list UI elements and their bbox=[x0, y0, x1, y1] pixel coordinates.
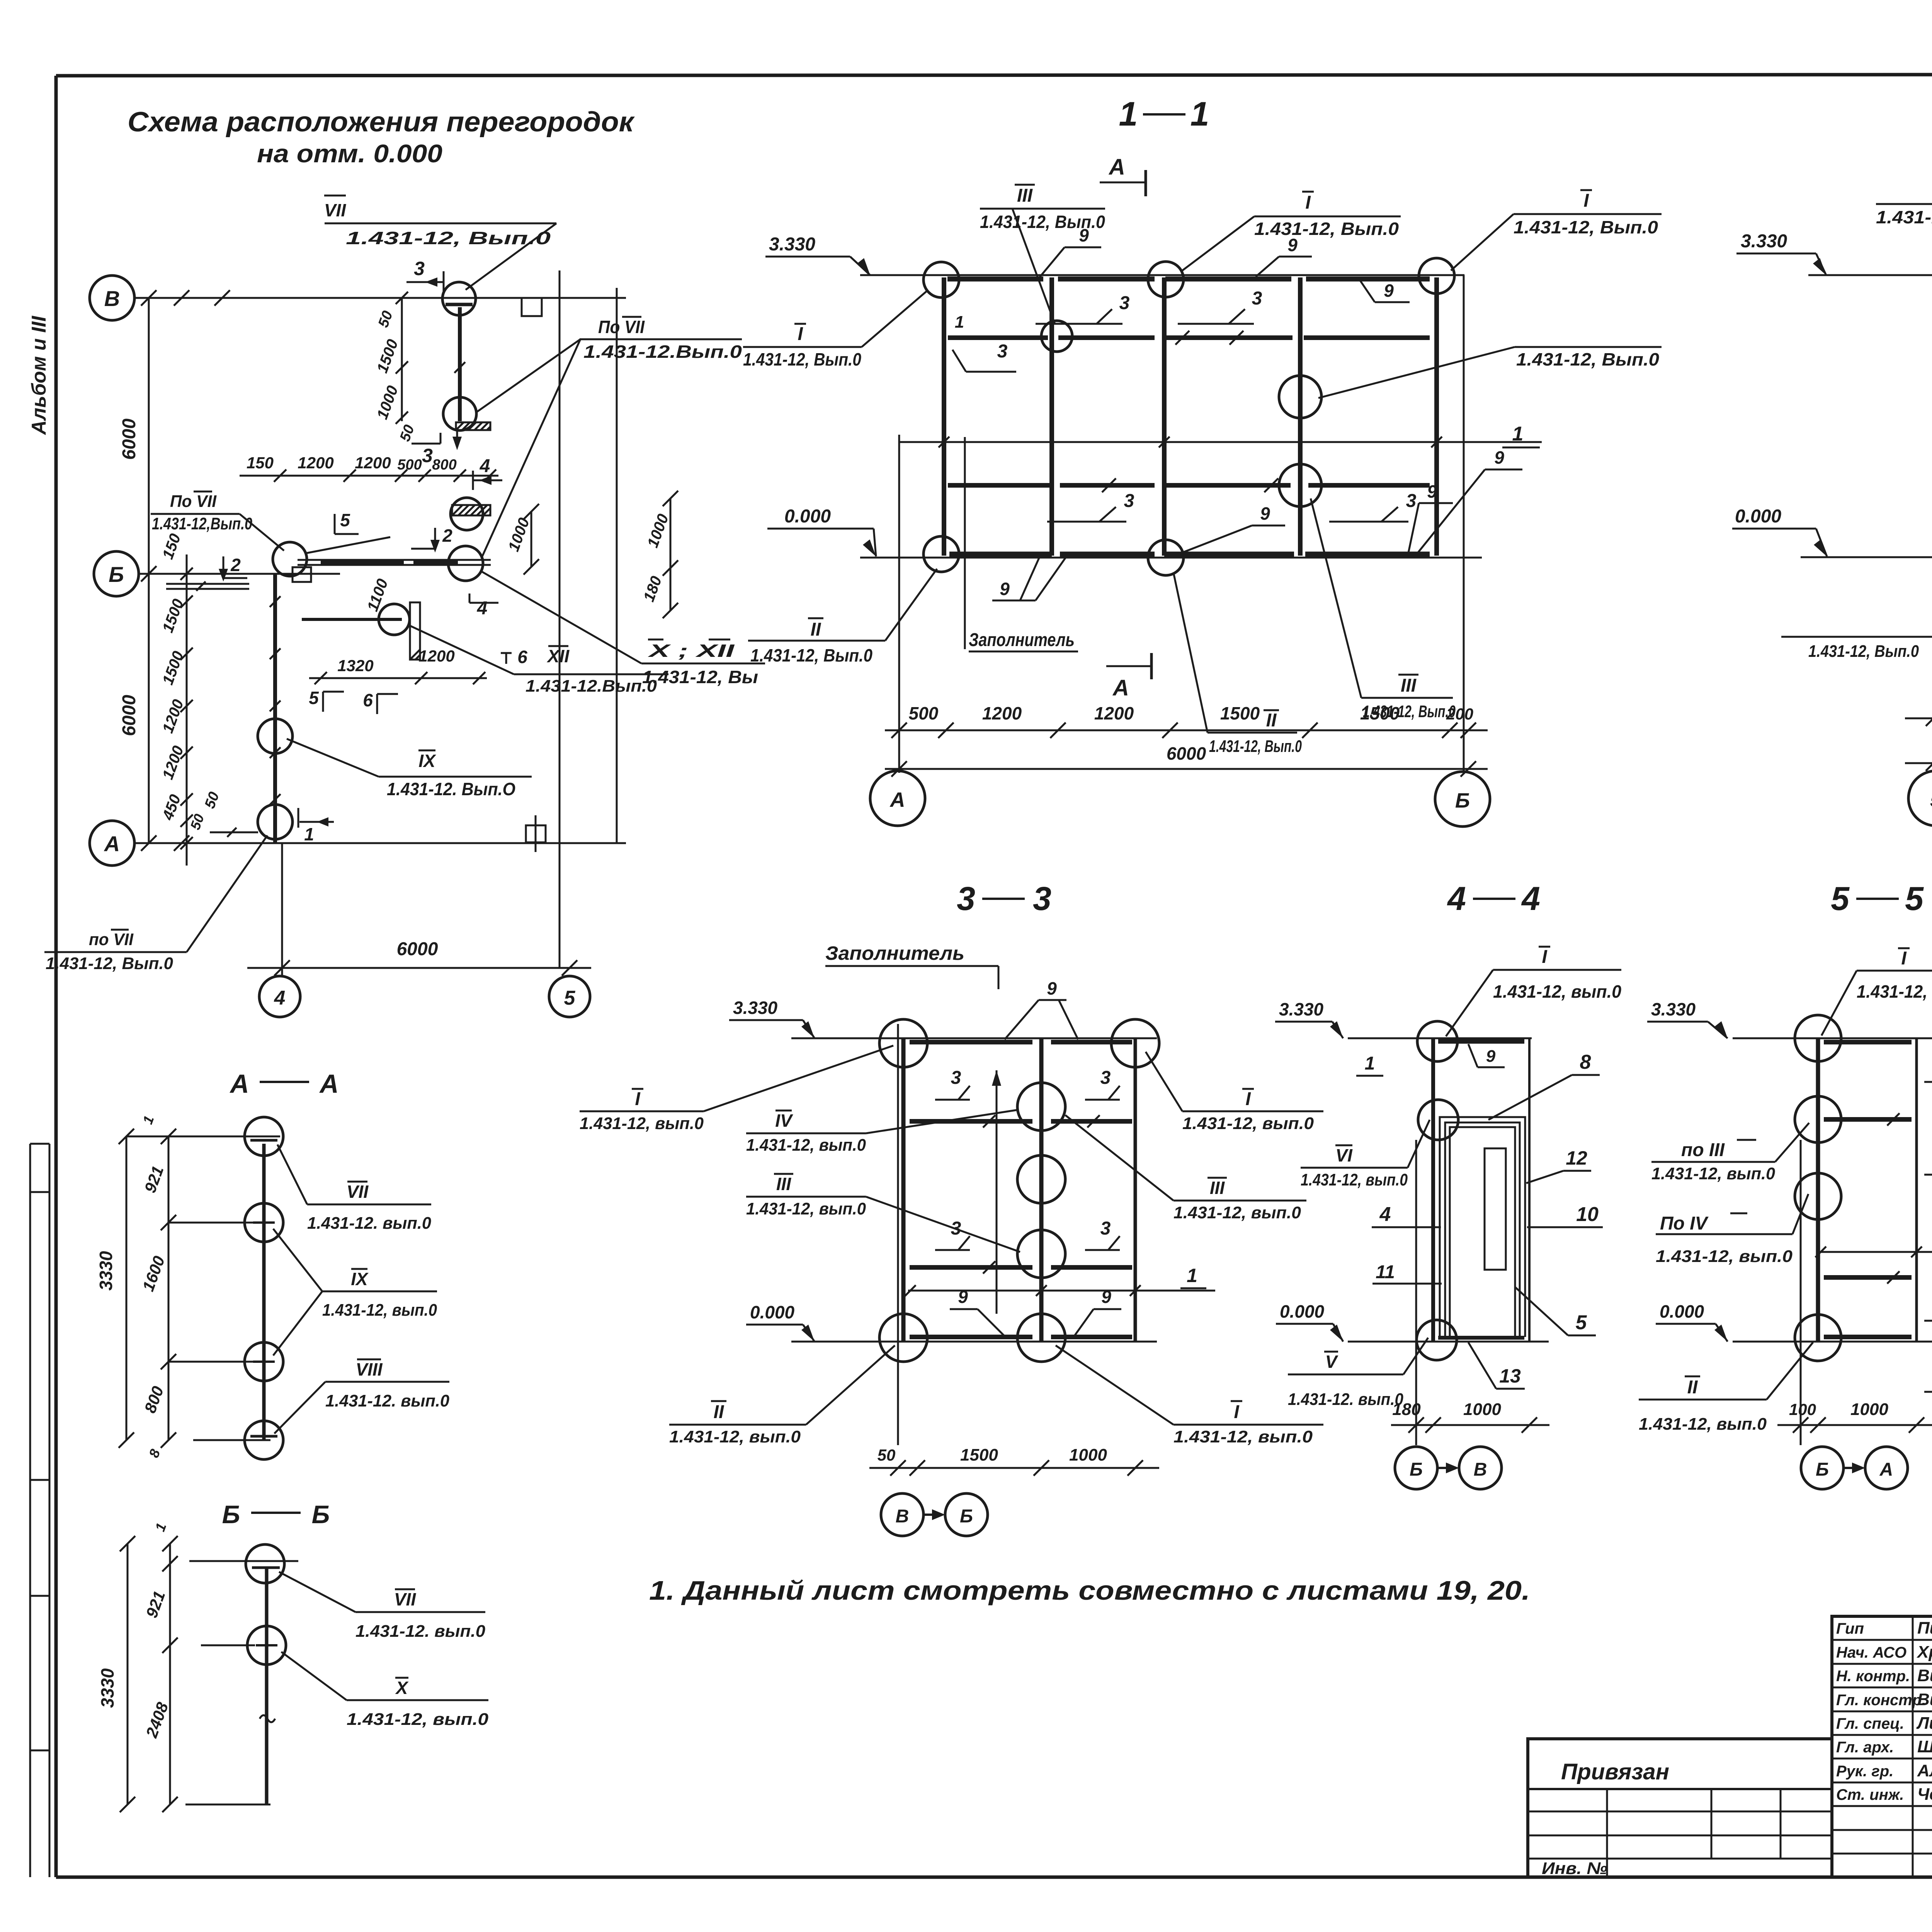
svg-text:4: 4 bbox=[274, 987, 286, 1009]
thin line 1 (5-5) bbox=[1815, 1247, 1932, 1257]
small dim 50 near А bbox=[202, 790, 258, 837]
callout VII (plan top) bbox=[324, 196, 556, 290]
slab bars (5-5) bbox=[1824, 1042, 1912, 1337]
callout X (Б-Б) bbox=[281, 1652, 489, 1729]
svg-text:Черкасова: Черкасова bbox=[1917, 1785, 1932, 1804]
svg-text:VII: VII bbox=[347, 1182, 369, 1202]
svg-text:6000: 6000 bbox=[119, 695, 139, 736]
svg-text:1.431-12, вып.0: 1.431-12, вып.0 bbox=[1173, 1203, 1301, 1222]
label 4 (4-4) bbox=[1372, 1203, 1441, 1227]
dimension chain (3-3) bbox=[869, 1446, 1159, 1476]
svg-text:9: 9 bbox=[1287, 235, 1298, 255]
callout circle VII top bbox=[442, 282, 476, 315]
callout I left (1-1) bbox=[743, 291, 927, 369]
svg-text:9: 9 bbox=[1079, 225, 1089, 245]
partitions (3-3) bbox=[903, 1038, 1135, 1342]
circles (Б-Б) bbox=[246, 1544, 286, 1665]
partitions (4-4) bbox=[1433, 1038, 1529, 1342]
view direction circles В-Б (3-3) bbox=[881, 1493, 988, 1536]
flag 9 bottom-right b (1-1) bbox=[1414, 447, 1522, 557]
partition dim chain 50/1500/1000/50 bbox=[374, 292, 418, 444]
hatched anchor in circle near axis 4 flag bbox=[451, 498, 490, 530]
svg-text:3: 3 bbox=[1033, 880, 1051, 917]
section 1-1 title bbox=[1119, 95, 1209, 133]
svg-text:4: 4 bbox=[1379, 1203, 1391, 1226]
svg-text:180: 180 bbox=[1392, 1400, 1421, 1419]
partition with hatch bar below Б bbox=[302, 602, 420, 660]
callout IX (plan) bbox=[287, 739, 532, 799]
flag 3 (1-1) e bbox=[1264, 478, 1417, 522]
svg-text:по VII: по VII bbox=[89, 930, 134, 949]
ground line (2-2) bbox=[1801, 556, 1932, 558]
svg-text:1.431-12. вып.0: 1.431-12. вып.0 bbox=[355, 1622, 486, 1641]
svg-text:3: 3 bbox=[1119, 293, 1130, 313]
callout по III (5-5) bbox=[1651, 1123, 1809, 1183]
svg-text:Б: Б bbox=[1455, 789, 1470, 812]
svg-text:1200: 1200 bbox=[418, 647, 454, 665]
axis dash line (5-5) bbox=[1800, 1140, 1802, 1445]
plan view axis line А bbox=[134, 835, 626, 851]
svg-text:0.000: 0.000 bbox=[750, 1302, 795, 1322]
svg-text:по III: по III bbox=[1681, 1140, 1725, 1160]
svg-text:I: I bbox=[1542, 947, 1548, 967]
svg-text:IX: IX bbox=[351, 1269, 369, 1289]
svg-text:1000: 1000 bbox=[1069, 1446, 1107, 1464]
section 4-4 title bbox=[1447, 880, 1540, 917]
svg-text:XII: XII bbox=[546, 646, 570, 666]
svg-text:800: 800 bbox=[432, 457, 456, 473]
svg-text:По VII: По VII bbox=[598, 317, 645, 337]
svg-text:III: III bbox=[1210, 1178, 1225, 1198]
label Заполнитель (3-3) bbox=[825, 942, 998, 989]
callout III bottom-right (1-1) bbox=[1311, 498, 1456, 721]
partition row on axis Б bbox=[293, 537, 491, 582]
plan lower dim chain 1320/1200 bbox=[309, 647, 487, 684]
callout V (4-4) bbox=[1288, 1338, 1428, 1409]
callout circle left on Б partition bbox=[273, 542, 307, 576]
section А-А title bbox=[229, 1069, 338, 1099]
cut pointer line (3-3) bbox=[992, 1070, 1001, 1314]
svg-text:3: 3 bbox=[957, 880, 975, 917]
svg-text:VI: VI bbox=[1335, 1145, 1353, 1165]
svg-text:1.431-12, Вып.0: 1.431-12, Вып.0 bbox=[346, 228, 551, 248]
flags 3 lower (3-3) bbox=[935, 1218, 995, 1274]
callout I right (3-3) bbox=[1146, 1052, 1323, 1133]
svg-text:0.000: 0.000 bbox=[784, 506, 831, 527]
flag 9 top (3-3) bbox=[1005, 978, 1078, 1039]
svg-text:II: II bbox=[714, 1402, 724, 1422]
callout circles (5-5) bbox=[1795, 1015, 1841, 1061]
top bar (4-4) bbox=[1438, 1039, 1524, 1044]
axis circle 5 bbox=[549, 976, 590, 1017]
svg-text:1.431-12, вып.0: 1.431-12, вып.0 bbox=[322, 1301, 437, 1320]
callout I top-left (2-2) bbox=[1876, 180, 1932, 270]
axis circle А bbox=[90, 821, 134, 866]
svg-text:I: I bbox=[1245, 1089, 1251, 1109]
svg-text:3: 3 bbox=[422, 445, 433, 466]
callout По VII (plan left) bbox=[151, 492, 284, 551]
top level line (1-1) bbox=[860, 274, 1464, 276]
flag 9 bottom-right a (1-1) bbox=[1408, 481, 1453, 553]
section 3-3 title bbox=[957, 880, 1051, 917]
svg-text:1.431-12, Вып.0: 1.431-12, Вып.0 bbox=[1209, 737, 1302, 756]
dimension chain (5-5) bbox=[1777, 1400, 1932, 1433]
svg-text:I: I bbox=[1234, 1402, 1240, 1422]
svg-text:3: 3 bbox=[997, 341, 1008, 362]
svg-text:II: II bbox=[1266, 710, 1277, 731]
flag 9 top-left (1-1) bbox=[1039, 225, 1101, 277]
callout I top (1-1) bbox=[1182, 192, 1401, 270]
thin line 1 (1-1) bbox=[900, 437, 1542, 447]
callout I top (5-5) bbox=[1821, 948, 1932, 1036]
section mark 1 near А bbox=[298, 808, 334, 844]
svg-text:В: В bbox=[104, 286, 120, 311]
callout IV (3-3) bbox=[746, 1110, 1019, 1155]
flag 9 bottom-left pair (1-1) bbox=[992, 556, 1066, 600]
svg-text:Б: Б bbox=[1816, 1459, 1829, 1480]
section mark А bottom bbox=[1106, 653, 1151, 701]
dimension chain 6000 (1-1) bbox=[885, 743, 1488, 777]
view direction circles Б-В (4-4) bbox=[1395, 1447, 1502, 1489]
svg-text:Инв. №: Инв. № bbox=[1542, 1859, 1607, 1878]
svg-text:А: А bbox=[1112, 675, 1129, 701]
callout II bottom (3-3) bbox=[669, 1345, 895, 1446]
svg-text:1200: 1200 bbox=[355, 454, 391, 472]
svg-text:9: 9 bbox=[1000, 579, 1010, 599]
top level line (3-3) bbox=[791, 1037, 1157, 1039]
svg-text:Гл. спец.: Гл. спец. bbox=[1836, 1715, 1904, 1732]
break squiggle (Б-Б) bbox=[260, 1715, 275, 1722]
callout circles (3-3) bbox=[879, 1019, 927, 1067]
svg-text:500: 500 bbox=[909, 703, 939, 723]
plan left dimension line 6000/6000 bbox=[119, 290, 156, 851]
svg-text:I: I bbox=[798, 324, 803, 344]
svg-text:1500: 1500 bbox=[960, 1446, 998, 1464]
top level line (5-5) bbox=[1733, 1037, 1932, 1039]
ground line (4-4) bbox=[1348, 1341, 1549, 1343]
svg-text:VII: VII bbox=[394, 1589, 416, 1609]
callout I left (3-3) bbox=[580, 1046, 893, 1133]
callout X ; XII (plan right lower) bbox=[482, 572, 765, 687]
svg-text:VIII: VIII bbox=[355, 1359, 383, 1379]
middle bar row 1 (1-1) bbox=[948, 335, 1430, 340]
callout circles (1-1) bbox=[923, 262, 959, 298]
svg-text:Шаломеев: Шаломеев bbox=[1917, 1737, 1932, 1756]
svg-text:6000: 6000 bbox=[1167, 743, 1206, 764]
svg-text:А: А bbox=[1879, 1459, 1893, 1480]
svg-text:1: 1 bbox=[304, 824, 314, 844]
svg-text:3330: 3330 bbox=[97, 1668, 117, 1708]
slab bars (3-3) bbox=[910, 1042, 1132, 1337]
svg-text:3: 3 bbox=[1406, 491, 1417, 511]
plan outer right wall line bbox=[616, 288, 618, 843]
ground line (5-5) bbox=[1733, 1341, 1932, 1343]
right vertical dim 1000/180 labels bbox=[640, 491, 678, 618]
svg-text:1.431-12, вып.0: 1.431-12, вып.0 bbox=[1656, 1247, 1793, 1266]
svg-text:1: 1 bbox=[955, 313, 964, 332]
svg-text:1.431-12, Вып.0: 1.431-12, Вып.0 bbox=[750, 645, 872, 665]
plan partition wall top (VII) bbox=[446, 304, 473, 421]
svg-text:1.431-12.Вып.0: 1.431-12.Вып.0 bbox=[583, 342, 742, 362]
svg-text:Привязан: Привязан bbox=[1561, 1759, 1669, 1784]
svg-text:1.431-12, Вып.0: 1.431-12, Вып.0 bbox=[1516, 349, 1659, 369]
plan right wall line bbox=[559, 270, 561, 968]
label 13 (4-4) bbox=[1468, 1342, 1525, 1389]
svg-text:I: I bbox=[1583, 190, 1589, 211]
svg-text:II: II bbox=[1687, 1377, 1698, 1398]
svg-text:I: I bbox=[1305, 192, 1311, 213]
svg-text:Рук. гр.: Рук. гр. bbox=[1836, 1763, 1893, 1780]
top level line (2-2) bbox=[1808, 274, 1932, 276]
section mark 6 bottom bbox=[363, 690, 398, 714]
svg-text:Гл. констр.: Гл. констр. bbox=[1836, 1692, 1926, 1709]
axis 4 drop line bbox=[281, 843, 283, 976]
svg-text:9: 9 bbox=[958, 1287, 968, 1307]
svg-text:Б: Б bbox=[109, 562, 124, 587]
svg-text:3.330: 3.330 bbox=[733, 998, 778, 1018]
svg-text:500: 500 bbox=[397, 457, 422, 473]
partition (Б-Б) bbox=[265, 1569, 269, 1804]
svg-text:По IV: По IV bbox=[1660, 1213, 1709, 1234]
callout III right (3-3) bbox=[1065, 1115, 1306, 1222]
svg-text:1.431-12,Вып.0: 1.431-12,Вып.0 bbox=[152, 514, 252, 533]
svg-text:1.431-12. вып.0: 1.431-12. вып.0 bbox=[1288, 1390, 1403, 1409]
callout circles (4-4) bbox=[1417, 1021, 1458, 1061]
label 5 (4-4) bbox=[1515, 1287, 1596, 1335]
svg-text:12: 12 bbox=[1566, 1147, 1587, 1169]
svg-text:Гип: Гип bbox=[1836, 1620, 1864, 1637]
svg-text:1: 1 bbox=[1512, 423, 1524, 445]
svg-text:1.431-12. вып.0: 1.431-12. вып.0 bbox=[307, 1214, 432, 1233]
svg-text:Винклер: Винклер bbox=[1917, 1666, 1932, 1685]
svg-text:1200: 1200 bbox=[1094, 703, 1134, 723]
svg-text:200: 200 bbox=[1446, 705, 1473, 723]
door slot (4-4) bbox=[1485, 1148, 1506, 1270]
svg-text:X: X bbox=[395, 1678, 409, 1698]
svg-text:1.431-12. Вып.О: 1.431-12. Вып.О bbox=[387, 779, 515, 799]
svg-text:А: А bbox=[1108, 155, 1125, 180]
section mark 3 bottom bbox=[412, 433, 440, 466]
svg-text:9: 9 bbox=[1384, 281, 1394, 301]
privyazan box bbox=[1528, 1739, 1832, 1878]
svg-text:1.431-12, вып.0: 1.431-12, вып.0 bbox=[746, 1136, 866, 1155]
svg-text:50: 50 bbox=[878, 1446, 896, 1464]
svg-text:3: 3 bbox=[1100, 1068, 1111, 1088]
svg-text:1.431-12. вып.0: 1.431-12. вып.0 bbox=[325, 1391, 450, 1410]
svg-text:5: 5 bbox=[564, 987, 576, 1009]
svg-text:5: 5 bbox=[1831, 880, 1850, 917]
bottom line (Б-Б) bbox=[185, 1804, 270, 1806]
label 1 (4-4) bbox=[1356, 1053, 1383, 1076]
svg-text:5: 5 bbox=[309, 688, 319, 708]
callout I top-right (1-1) bbox=[1451, 190, 1662, 270]
svg-text:1. Данный лист смотреть: 1. Данный лист смотреть совместно с лист… bbox=[649, 1575, 1530, 1605]
flag 3 (1-1) d bbox=[1047, 478, 1134, 522]
square fixture on axis А bbox=[526, 815, 546, 852]
svg-text:9: 9 bbox=[1427, 481, 1437, 502]
dimension chain (4-4) bbox=[1391, 1400, 1549, 1433]
svg-text:IX: IX bbox=[418, 751, 436, 771]
callout по VII (plan bottom-left) bbox=[44, 835, 267, 973]
callout II bottom-mid (1-1) bbox=[1174, 575, 1302, 756]
level lines (А-А) bbox=[168, 1223, 270, 1440]
label Заполнитель (1-1) bbox=[969, 630, 1078, 651]
axis circle 5 (2-2) bbox=[1908, 771, 1932, 826]
svg-text:1000: 1000 bbox=[1463, 1400, 1501, 1419]
plan partition wall on axis 4 bbox=[270, 574, 281, 843]
svg-text:1.431-12.Вып.0: 1.431-12.Вып.0 bbox=[526, 677, 657, 696]
label 12 (4-4) bbox=[1526, 1147, 1591, 1183]
square fixture on axis В bbox=[522, 298, 542, 316]
label 10 (4-4) bbox=[1527, 1203, 1603, 1227]
svg-text:Пивторак: Пивторак bbox=[1917, 1619, 1932, 1638]
axis circle В bbox=[90, 276, 134, 320]
section mark 3 top bbox=[406, 258, 444, 293]
svg-text:В: В bbox=[1474, 1459, 1487, 1480]
svg-text:Нач. АСО: Нач. АСО bbox=[1836, 1644, 1906, 1661]
svg-text:4: 4 bbox=[1447, 880, 1466, 917]
label 8 (4-4) bbox=[1488, 1051, 1600, 1120]
partition double line below Б bbox=[166, 582, 249, 591]
axis circle 4 bbox=[259, 976, 300, 1017]
svg-text:В: В bbox=[896, 1506, 909, 1527]
svg-text:1.431-12, Вып.0: 1.431-12, Вып.0 bbox=[1808, 642, 1919, 661]
svg-text:5: 5 bbox=[1905, 880, 1924, 917]
svg-text:1500: 1500 bbox=[1220, 703, 1260, 723]
plan view axis line В bbox=[134, 290, 626, 306]
svg-text:2: 2 bbox=[230, 555, 241, 575]
left margin inventory boxes bbox=[30, 1144, 49, 1877]
door frame (4-4) bbox=[1440, 1117, 1525, 1337]
label 1 (3-3) bbox=[1180, 1265, 1206, 1288]
dimension chain 1 (1-1) bbox=[885, 703, 1488, 738]
svg-text:1.431-12, вып.0: 1.431-12, вып.0 bbox=[1173, 1427, 1313, 1446]
svg-text:V: V bbox=[1325, 1352, 1338, 1372]
bottom bars (1-1) bbox=[949, 552, 1430, 557]
svg-text:1.431-12, Вып.0: 1.431-12, Вып.0 bbox=[1876, 207, 1932, 227]
svg-text:3: 3 bbox=[951, 1068, 961, 1088]
flag 9 upper-right (1-1) bbox=[1360, 281, 1410, 302]
callout circle VII bottom bbox=[443, 397, 476, 430]
flags 3 upper (3-3) bbox=[935, 1068, 995, 1128]
svg-text:Альбом и III: Альбом и III bbox=[28, 315, 50, 435]
callout II bottom (5-5) bbox=[1639, 1342, 1813, 1434]
dim chains (А-А) bbox=[96, 1114, 176, 1460]
svg-text:1.431-12, Вып.0: 1.431-12, Вып.0 bbox=[1254, 219, 1399, 239]
svg-text:1.431-12, Вып.0: 1.431-12, Вып.0 bbox=[743, 349, 861, 369]
svg-text:Ст. инж.: Ст. инж. bbox=[1836, 1786, 1904, 1803]
svg-text:1: 1 bbox=[1187, 1265, 1197, 1286]
label 1 right (1-1) bbox=[1502, 423, 1540, 447]
svg-text:3.330: 3.330 bbox=[1279, 999, 1324, 1019]
axis circle Б (1-1) bbox=[1435, 772, 1490, 827]
section 5-5 title bbox=[1831, 880, 1924, 917]
callout По VII (plan right) bbox=[477, 317, 742, 556]
svg-text:1.431-12, вып.0: 1.431-12, вып.0 bbox=[1651, 1164, 1776, 1183]
dimension chain (2-2) bbox=[1905, 695, 1932, 726]
svg-text:1.431-12, вып.0: 1.431-12, вып.0 bbox=[746, 1199, 866, 1218]
svg-text:Б: Б bbox=[312, 1500, 330, 1529]
section mark 4 top bbox=[473, 456, 502, 490]
flag 9 bottom-mid (1-1) bbox=[1182, 503, 1285, 553]
callout VIII (А-А) bbox=[274, 1359, 450, 1434]
callout I top (4-4) bbox=[1446, 947, 1621, 1036]
svg-text:Схема расположения перегород: Схема расположения перегородок bbox=[128, 107, 635, 138]
section Б-Б title bbox=[222, 1500, 330, 1529]
svg-text:1.431-12, вып.0: 1.431-12, вып.0 bbox=[1639, 1415, 1767, 1434]
svg-text:Заполнитель: Заполнитель bbox=[825, 942, 964, 964]
svg-text:8: 8 bbox=[1580, 1051, 1591, 1073]
svg-text:9: 9 bbox=[1101, 1287, 1111, 1307]
svg-text:6000: 6000 bbox=[119, 418, 139, 460]
svg-text:1320: 1320 bbox=[337, 656, 373, 675]
ground level line (1-1) bbox=[860, 557, 1482, 559]
axis dash line (4-4) bbox=[1415, 1140, 1417, 1445]
svg-text:4: 4 bbox=[477, 598, 488, 619]
svg-text:II: II bbox=[811, 619, 821, 640]
svg-text:IV: IV bbox=[775, 1111, 793, 1131]
svg-text:1.431-12, вып.0: 1.431-12, вып.0 bbox=[1857, 981, 1932, 1002]
axis circle А (1-1) bbox=[870, 771, 925, 826]
ground line (3-3) bbox=[791, 1341, 1157, 1343]
svg-text:Лисичкин: Лисичкин bbox=[1916, 1714, 1932, 1733]
section mark 4 bottom bbox=[469, 594, 498, 619]
wall columns (1-1) bbox=[944, 277, 1437, 556]
svg-text:3330: 3330 bbox=[96, 1251, 116, 1291]
top level line (4-4) bbox=[1348, 1037, 1532, 1039]
svg-text:X ; XII: X ; XII bbox=[647, 641, 735, 661]
top line (Б-Б) bbox=[189, 1560, 298, 1562]
callout circle right on Б partition bbox=[448, 546, 483, 581]
svg-text:4: 4 bbox=[480, 456, 490, 476]
svg-text:3: 3 bbox=[1252, 288, 1262, 309]
svg-text:1.431-12, вып.0: 1.431-12, вып.0 bbox=[1301, 1170, 1408, 1189]
svg-text:6000: 6000 bbox=[397, 939, 438, 959]
staff table bbox=[1832, 1616, 1932, 1877]
svg-text:Хрупало: Хрупало bbox=[1916, 1643, 1932, 1662]
svg-text:13: 13 bbox=[1499, 1365, 1521, 1387]
plan view axis line Б bbox=[139, 573, 340, 575]
flag 3 (1-1) b bbox=[1036, 293, 1189, 345]
svg-text:11: 11 bbox=[1376, 1262, 1395, 1282]
axis drop lines (1-1) bbox=[898, 435, 900, 773]
flag 3 (1-1) c bbox=[1178, 288, 1262, 345]
section mark А top bbox=[1100, 155, 1146, 196]
flag 3 b (5-5) bbox=[1887, 1271, 1932, 1321]
svg-text:10: 10 bbox=[1576, 1203, 1599, 1226]
svg-text:1000: 1000 bbox=[1850, 1400, 1888, 1419]
svg-text:2: 2 bbox=[442, 526, 452, 546]
svg-text:1200: 1200 bbox=[982, 703, 1022, 723]
svg-text:3.330: 3.330 bbox=[769, 234, 815, 255]
callout III bottom (2-2) bbox=[1781, 481, 1932, 661]
svg-text:3: 3 bbox=[1100, 1218, 1111, 1239]
level line (Б-Б) bbox=[201, 1645, 255, 1646]
svg-text:0.000: 0.000 bbox=[1280, 1301, 1325, 1321]
svg-text:1500: 1500 bbox=[1360, 703, 1400, 723]
svg-text:1.431-12, Вып.0: 1.431-12, Вып.0 bbox=[46, 954, 173, 973]
plan bottom dim 6000 bbox=[247, 939, 591, 976]
callout По IV (5-5) bbox=[1656, 1194, 1808, 1266]
svg-text:9: 9 bbox=[1260, 503, 1270, 524]
svg-text:9: 9 bbox=[1047, 978, 1057, 998]
svg-text:1: 1 bbox=[1190, 95, 1209, 133]
section mark 5 top bbox=[335, 510, 359, 534]
flag 9 top-mid (1-1) bbox=[1256, 235, 1312, 277]
svg-text:1.431-12, Вып.0: 1.431-12, Вып.0 bbox=[1514, 217, 1658, 237]
bottom bar (4-4) bbox=[1438, 1336, 1524, 1340]
svg-text:1.431-12, вып.0: 1.431-12, вып.0 bbox=[580, 1114, 704, 1133]
